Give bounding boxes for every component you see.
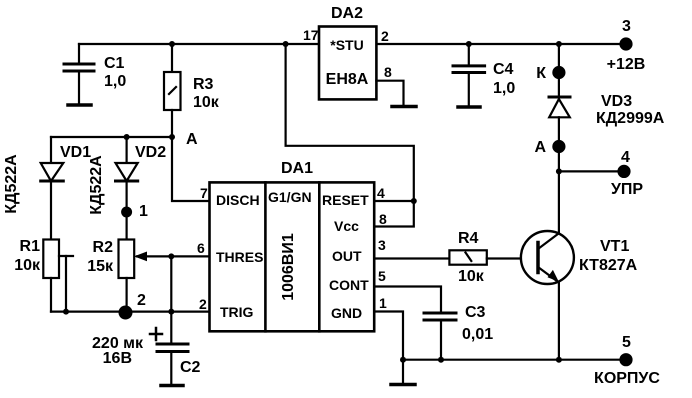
wire VT1 emitter to bottom rail (556, 282, 562, 363)
svg-text:THRES: THRES (216, 249, 263, 265)
wire bottom rail (403, 359, 626, 361)
pin 7 label (200, 185, 208, 201)
node A (169, 131, 198, 148)
svg-text:2: 2 (199, 296, 207, 312)
wire GND pin 1 down (374, 312, 406, 363)
pin 8 label (DA2) (384, 64, 392, 80)
svg-text:G1/GN: G1/GN (268, 189, 312, 205)
svg-text:10к: 10к (14, 257, 41, 274)
wire Vcc pin 8 to supply vertical (283, 41, 414, 227)
svg-text:8: 8 (379, 211, 387, 227)
svg-text:5: 5 (378, 268, 386, 284)
pin 2 label (DA2) (381, 28, 389, 44)
node A (VD3 anode) (534, 139, 564, 156)
op-amp/timer IC DA1 (1006ВИ1) (210, 160, 375, 331)
svg-text:R2: R2 (93, 239, 114, 256)
diode VD3 (549, 93, 665, 171)
capacitor C1 (64, 44, 126, 105)
node 1 (121, 203, 148, 220)
svg-text:КОРПУС: КОРПУС (594, 370, 660, 387)
voltage regulator DA2 (ЕН8А) (319, 5, 376, 99)
svg-text:1,0: 1,0 (104, 73, 126, 90)
terminal 5 (КОРПУС) (594, 334, 660, 387)
wire VD1/VD2 top (51, 134, 172, 140)
svg-text:DA1: DA1 (281, 160, 313, 177)
svg-text:CONT: CONT (329, 277, 369, 293)
svg-text:*STU: *STU (330, 37, 363, 53)
pin 4 label (377, 185, 385, 201)
svg-text:6: 6 (197, 240, 205, 256)
capacitor C2 (electrolytic 220uF) (92, 328, 201, 386)
wire top rail left (C1 to DA2 pin 17) (79, 43, 319, 45)
capacitor C4 (453, 41, 515, 107)
pin 8 label (379, 211, 387, 227)
ground (bottom rail) (391, 360, 415, 385)
svg-text:КД522А: КД522А (88, 155, 105, 215)
svg-text:C4: C4 (493, 61, 514, 78)
svg-text:УПР: УПР (611, 181, 643, 198)
svg-text:ЕН8А: ЕН8А (326, 71, 369, 88)
svg-text:DISCH: DISCH (216, 192, 260, 208)
wire RESET pin 4 to supply vertical (374, 198, 417, 204)
svg-text:10к: 10к (193, 94, 220, 111)
svg-text:OUT: OUT (332, 248, 362, 264)
svg-text:RESET: RESET (322, 192, 369, 208)
svg-text:GND: GND (331, 305, 362, 321)
wire junction to terminal 4 (556, 168, 624, 174)
svg-text:C3: C3 (465, 304, 486, 321)
wire OUT pin 3 to R4 (374, 257, 449, 259)
svg-text:+12В: +12В (607, 56, 646, 73)
svg-text:16В: 16В (103, 350, 132, 367)
svg-text:7: 7 (200, 185, 208, 201)
svg-text:15к: 15к (87, 258, 114, 275)
svg-text:R3: R3 (193, 76, 214, 93)
svg-text:2: 2 (137, 292, 146, 309)
svg-text:DA2: DA2 (331, 5, 363, 22)
resistor R4 (449, 230, 486, 285)
svg-text:R1: R1 (20, 238, 41, 255)
svg-text:КД2999А: КД2999А (596, 110, 665, 127)
wire VT1 collector (558, 171, 560, 233)
wire R4 to VT1 base (487, 257, 538, 259)
svg-text:VT1: VT1 (600, 238, 629, 255)
svg-text:2: 2 (381, 28, 389, 44)
svg-text:0,01: 0,01 (462, 326, 493, 343)
svg-text:8: 8 (384, 64, 392, 80)
wire CONT pin 5 to C3 (374, 287, 441, 314)
svg-text:1006ВИ1: 1006ВИ1 (280, 233, 297, 301)
capacitor C3 (424, 304, 493, 363)
wire THRES junction down to C2 (168, 256, 174, 344)
svg-text:А: А (186, 131, 198, 148)
resistor R1 (with tap) (14, 238, 73, 315)
wire VD3 branch vertical (556, 41, 562, 97)
pin 6 label (197, 240, 205, 256)
svg-text:4: 4 (621, 149, 630, 166)
diode VD2 (88, 137, 166, 215)
svg-text:1: 1 (379, 295, 387, 311)
svg-text:C2: C2 (180, 359, 201, 376)
svg-text:К: К (536, 65, 546, 82)
wire bottom-left (R1 bottom to TRIG pin 2) (51, 311, 210, 313)
svg-text:TRIG: TRIG (220, 304, 254, 320)
wire THRES to R2 wiper (arrow) (134, 252, 210, 262)
svg-text:R4: R4 (458, 230, 479, 247)
terminal 4 (УПР) (611, 149, 643, 198)
resistor R3 (164, 41, 220, 137)
svg-text:VD2: VD2 (135, 144, 166, 161)
svg-text:А: А (534, 139, 546, 156)
wire node A down to DISCH pin 7 (172, 137, 210, 201)
svg-text:4: 4 (377, 185, 385, 201)
svg-text:17: 17 (303, 27, 319, 43)
pin 17 label (303, 27, 319, 43)
pin 1 label (379, 295, 387, 311)
svg-text:КТ827А: КТ827А (579, 257, 638, 274)
svg-text:КД522А: КД522А (3, 154, 20, 214)
node K (536, 65, 564, 82)
wire top rail right (DA2 pin 2 to terminal 3) (376, 43, 626, 45)
terminal 3 (+12V) (607, 18, 646, 73)
svg-text:3: 3 (622, 18, 631, 35)
svg-text:VD3: VD3 (601, 93, 632, 110)
svg-text:1: 1 (139, 203, 148, 220)
wire DA2 pin 8 to ground (376, 81, 403, 105)
svg-text:5: 5 (622, 334, 631, 351)
svg-text:Vcc: Vcc (334, 218, 359, 234)
node 2 (119, 292, 147, 320)
svg-text:1,0: 1,0 (493, 80, 515, 97)
svg-text:10к: 10к (458, 268, 485, 285)
resistor R2 (potentiometer) (87, 212, 134, 312)
svg-text:3: 3 (378, 237, 386, 253)
svg-text:VD1: VD1 (60, 144, 91, 161)
pin 5 label (378, 268, 386, 284)
transistor VT1 (521, 231, 638, 284)
pin 3 label (378, 237, 386, 253)
ground (DA2 pin 8) (392, 105, 416, 109)
pin 2 label (199, 296, 207, 312)
diode VD1 (3, 137, 91, 239)
svg-text:C1: C1 (104, 55, 125, 72)
